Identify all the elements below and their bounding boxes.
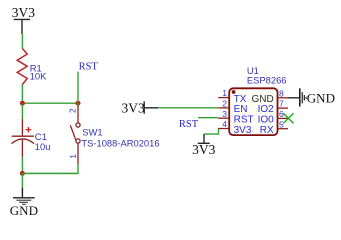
U1 pin 3 RST [218,117,229,119]
resistor R1 [17,48,27,84]
wire from R1 to node A [21,85,23,104]
ground GND symbol right (rotated bars) [300,88,306,106]
svg-text:SW1: SW1 [82,127,102,138]
wire 3V3 to EN pin [158,107,218,109]
svg-text:7: 7 [279,99,284,109]
switch SW1 pin 2 lead [77,106,79,123]
U1 pin 2 EN [218,107,229,109]
power 3V3 top-left bar symbol [14,19,30,34]
wire node A down to C1 [21,103,23,119]
ground GND symbol bottom-left [13,188,35,205]
svg-text:TS-1088-AR02016: TS-1088-AR02016 [81,137,159,148]
wire node B horizontal (bottom rail) [22,172,78,174]
wire 3V3 to 3V3 pin (stepped) [204,128,219,134]
svg-text:4: 4 [222,119,227,129]
svg-text:10u: 10u [35,141,51,152]
U1 pin 6 no-ERC cross [283,113,293,123]
junction node A left [20,101,25,106]
U1 polarity dot [232,90,236,94]
wire ground stub [21,173,23,187]
svg-text:3: 3 [222,109,227,119]
svg-text:8: 8 [279,88,284,98]
U1 pin 7 IO2 [278,107,289,109]
switch SW1 bottom contact [76,139,80,143]
wire node A horizontal (top rail) [22,102,78,104]
junction node B [20,171,25,176]
switch SW1 top contact [76,123,80,127]
svg-text:10K: 10K [30,71,47,82]
svg-text:RST: RST [179,119,199,130]
capacitor C1 plus sign [26,127,31,132]
U1 pin 5 RX [278,128,289,130]
svg-text:1: 1 [222,88,227,98]
switch SW1 lever [70,125,76,140]
svg-text:3V3: 3V3 [192,142,215,157]
wire switch pin2 to node A [77,103,79,107]
svg-text:3V3: 3V3 [12,5,35,20]
wire RST vertical to node A [77,72,79,104]
op-amp U1 body ESP8266 [229,88,277,135]
svg-text:GND: GND [307,91,335,106]
power 3V3 bar symbol (EN) [144,101,158,114]
wire from 3V3 to R1 [21,34,23,48]
switch SW1 pin 1 lead [77,143,79,164]
U1 pin 4 3V3 [218,128,229,130]
U1 pin 1 TX [218,97,229,99]
svg-text:ESP8266: ESP8266 [247,75,287,86]
svg-text:5: 5 [279,119,284,129]
svg-text:2: 2 [67,108,77,113]
U1 pin 6 IO0 [278,117,289,119]
U1 pin 8 GND [278,97,289,99]
junction node A right [76,101,81,106]
wire switch pin1 to node B [22,164,78,173]
svg-text:3V3: 3V3 [122,100,145,115]
svg-text:2: 2 [222,99,227,109]
svg-text:3V3: 3V3 [234,125,252,136]
wire C1 to node B [21,157,23,173]
svg-text:RX: RX [260,125,274,136]
svg-text:1: 1 [68,154,78,159]
svg-text:GND: GND [10,203,38,218]
capacitor C1 [12,119,35,157]
wire pin8 to GND [288,97,299,99]
wire RST to RST pin [198,117,218,119]
svg-text:RST: RST [79,62,99,73]
power 3V3 bar symbol (below pin4) [198,134,210,143]
